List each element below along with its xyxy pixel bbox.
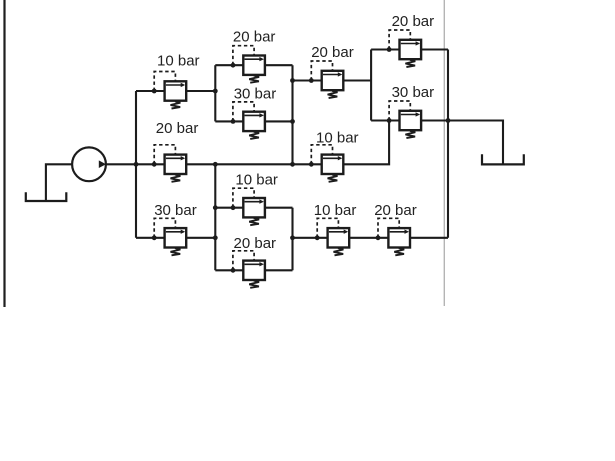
relief valve V8 (30 bar) xyxy=(389,101,421,138)
tank T2 (reservoir, right) xyxy=(481,154,525,164)
relief valve V1 (10 bar) xyxy=(154,72,186,109)
wire N2 top to valve V4 inlet xyxy=(215,64,243,66)
wire bus N1 vertical (first stage split) xyxy=(135,91,137,238)
wire split vertical N4 (V7/V8 inlets) xyxy=(370,50,372,121)
relief valve V9 (10 bar) xyxy=(311,145,343,182)
wire pump suction from tank T1 xyxy=(46,164,72,201)
wire valve V3 outlet to node N7 xyxy=(186,237,215,239)
wire valve V1 outlet to node N2 xyxy=(186,90,215,92)
node pilot tap V5 xyxy=(231,119,236,124)
node N2 junction (V1 out / split) xyxy=(213,89,218,94)
wire N5 output to tank T2 xyxy=(448,121,503,165)
wire rejoin vertical N3 xyxy=(291,65,293,164)
svg-text:20 bar: 20 bar xyxy=(392,13,435,30)
svg-text:10 bar: 10 bar xyxy=(316,130,359,147)
svg-text:20 bar: 20 bar xyxy=(374,202,417,219)
wire split vertical N2 (V4/V5 inlets) xyxy=(214,65,216,121)
node pilot tap V4 xyxy=(231,63,236,68)
svg-text:10 bar: 10 bar xyxy=(157,53,200,70)
node pilot tap V10 xyxy=(231,205,236,210)
relief valve V11 (20 bar) xyxy=(233,251,265,288)
wire N4 top to valve V7 inlet xyxy=(371,48,399,50)
tank T1 (reservoir, left) xyxy=(25,192,68,201)
wire valve V7 outlet to node N5 xyxy=(421,48,448,50)
node N7 junction valve V3 outlet xyxy=(213,235,218,240)
wire valve V5 outlet to node N3 xyxy=(265,120,293,122)
relief valve V6 (20 bar) xyxy=(311,61,343,98)
relief valve V13 (20 bar) xyxy=(378,218,410,255)
svg-text:10 bar: 10 bar xyxy=(314,202,357,219)
wire N2 bottom to valve V5 inlet xyxy=(215,120,243,122)
wire row B to valve V9 inlet xyxy=(293,163,322,165)
wire valve V10 outlet to node N8 xyxy=(265,207,293,209)
relief valve V3 (30 bar) xyxy=(154,218,186,255)
relief valve V12 (10 bar) xyxy=(317,218,349,255)
node pilot tap V1 xyxy=(152,89,157,94)
svg-text:10 bar: 10 bar xyxy=(235,172,278,189)
node pilot tap V12 xyxy=(315,235,320,240)
svg-text:20 bar: 20 bar xyxy=(234,235,277,252)
relief valve V2 (20 bar) xyxy=(154,145,186,182)
node N3 junction V5 outlet xyxy=(290,119,295,124)
svg-text:20 bar: 20 bar xyxy=(233,28,276,45)
svg-text:30 bar: 30 bar xyxy=(154,202,197,219)
relief valve V10 (10 bar) xyxy=(233,188,265,225)
node N5 output junction xyxy=(446,118,451,123)
wire N8 to valve V12 inlet xyxy=(293,237,328,239)
wire rejoin vertical N5 xyxy=(447,50,449,238)
wire N1 to valve V3 inlet xyxy=(136,237,165,239)
node N1 junction (pump/bus) xyxy=(134,162,139,167)
node pilot tap V13 xyxy=(376,235,381,240)
page left border line xyxy=(3,0,5,307)
pump P1 (fixed displacement) xyxy=(72,147,106,181)
node N3 tap to valve V6 xyxy=(290,78,295,83)
wire pump P1 outlet to node N1 xyxy=(106,163,136,165)
wire N1 to valve V1 inlet xyxy=(136,90,165,92)
wire valve V4 outlet to node N3 xyxy=(265,64,293,66)
wire N7 to valve V11 inlet xyxy=(215,269,243,271)
node pilot tap V9 xyxy=(309,162,314,167)
wire N4 bottom to valve V8 inlet xyxy=(371,119,399,121)
node N8 output junction xyxy=(290,235,295,240)
wire valve V12 outlet to valve V13 inlet xyxy=(349,237,388,239)
relief valve V5 (30 bar) xyxy=(233,102,265,139)
node pilot tap V3 xyxy=(152,235,157,240)
relief valve V7 (20 bar) xyxy=(389,30,421,67)
svg-text:20 bar: 20 bar xyxy=(156,120,199,137)
node N3 junction row B xyxy=(290,162,295,167)
wire valve V6 outlet to node N4 xyxy=(343,79,371,81)
node pilot tap V11 xyxy=(231,268,236,273)
wire valve V13 outlet to node N5 xyxy=(410,237,448,239)
wire valve V9 outlet up to node N6 xyxy=(343,121,389,165)
wire split vertical N7 (V10/V11 inlets) xyxy=(214,164,216,270)
node pilot tap V7 xyxy=(387,47,392,52)
node pilot tap V8 / N6 junction xyxy=(387,118,392,123)
wire rejoin vertical N8 xyxy=(291,208,293,271)
wire N1 to valve V2 inlet xyxy=(136,163,165,165)
page column separator (gray) xyxy=(443,0,445,306)
svg-text:20 bar: 20 bar xyxy=(311,44,354,61)
node pilot tap V2 xyxy=(152,162,157,167)
relief valve V4 (20 bar) xyxy=(233,46,265,83)
svg-text:30 bar: 30 bar xyxy=(392,84,435,101)
node N7 junction V10 inlet xyxy=(213,205,218,210)
wire valve V2 outlet to node N3 (row B) xyxy=(186,163,292,165)
wire N7 to valve V10 inlet xyxy=(215,207,243,209)
wire N3 to valve V6 inlet xyxy=(293,79,322,81)
wire valve V8 outlet to node N5 xyxy=(421,119,448,121)
node pilot tap V6 xyxy=(309,78,314,83)
svg-text:30 bar: 30 bar xyxy=(234,86,277,103)
node junction row B / N7 split xyxy=(213,162,218,167)
wire valve V11 outlet to node N8 xyxy=(265,269,293,271)
